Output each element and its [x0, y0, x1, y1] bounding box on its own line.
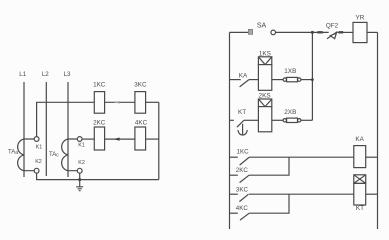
wire from K2 of TAc to bottom rail	[79, 173, 81, 180]
junction ground node	[78, 178, 81, 181]
relay coil KA	[354, 136, 366, 168]
svg-text:a: a	[15, 150, 18, 156]
wire right vertical bus	[377, 32, 379, 229]
svg-text:3KC: 3KC	[236, 187, 249, 194]
svg-text:K1: K1	[78, 143, 85, 149]
wire 3KC row from bus	[230, 193, 238, 195]
wire 2KC row riser up to 1KC row	[249, 157, 289, 175]
node L1	[19, 71, 26, 78]
svg-text:SA: SA	[257, 22, 267, 29]
wire riser from QF2 junction down to XB rows	[311, 32, 313, 120]
current transformer TAc	[49, 139, 77, 171]
arrow dash after QF2	[339, 31, 344, 33]
contact 4KC	[236, 205, 249, 220]
svg-text:1KC: 1KC	[237, 149, 250, 156]
svg-text:1XB: 1XB	[284, 68, 296, 75]
wire KT coil to right bus	[366, 193, 378, 195]
wire QF2 to YR	[337, 31, 353, 33]
wire 1KS to 1XB	[272, 79, 283, 81]
svg-text:4KC: 4KC	[135, 120, 148, 127]
svg-text:2KS: 2KS	[259, 93, 271, 100]
junction node at riser	[311, 31, 314, 34]
wire L2 phase line	[45, 82, 47, 176]
wire KT row from bus	[230, 119, 234, 121]
svg-text:KT: KT	[356, 205, 364, 212]
svg-text:L2: L2	[42, 71, 49, 78]
faint arrow on wire	[114, 101, 120, 104]
wire KA coil to right bus	[366, 156, 378, 158]
svg-text:KT: KT	[238, 109, 246, 116]
wire KA contact to 1KS	[249, 79, 259, 81]
node L2	[42, 71, 49, 78]
contact 1KC	[237, 149, 250, 166]
relay coil 2KC	[93, 120, 106, 150]
wire KA row from bus	[230, 79, 241, 81]
svg-text:QF2: QF2	[326, 22, 339, 29]
wire 2KS to 2XB	[272, 119, 283, 121]
wire L3 phase line	[67, 82, 69, 177]
time relay coil KT	[354, 175, 366, 212]
wire left control bus	[229, 32, 231, 229]
switch SA	[248, 22, 275, 34]
wire from K1 of TAc right to 2KC	[82, 138, 94, 140]
svg-text:L3: L3	[64, 71, 71, 78]
svg-text:3KC: 3KC	[134, 81, 147, 88]
wire KT contact to 2KS	[244, 119, 259, 121]
terminal K2 of TAa	[34, 159, 42, 173]
svg-text:TA: TA	[8, 149, 15, 155]
wire YR to right vertical	[367, 31, 378, 33]
arrow on wire	[113, 138, 119, 141]
wire right vertical of CT secondary loop	[158, 102, 160, 179]
current transformer TAa	[8, 139, 34, 171]
relay coil 3KC	[134, 81, 147, 113]
svg-text:1KS: 1KS	[259, 51, 271, 58]
wire SA to QF2 junction	[276, 31, 329, 33]
contact 3KC	[236, 187, 249, 202]
svg-text:2KC: 2KC	[93, 120, 106, 127]
terminal K1 of TAa	[34, 137, 42, 151]
terminal K1 of TAc	[77, 137, 85, 149]
wire 1KC row from bus	[230, 156, 238, 158]
wire 2KC to 4KC with arrow	[105, 138, 135, 140]
svg-text:K2: K2	[78, 160, 85, 166]
wire 4KC row riser up to 3KC row	[249, 194, 289, 213]
svg-text:2KC: 2KC	[236, 167, 249, 174]
wire 2XB to riser bottom	[301, 119, 313, 121]
wire top row to SA	[230, 31, 249, 33]
signal relay 1KS	[258, 51, 271, 91]
terminal K2 of TAc	[77, 160, 85, 173]
junction node	[311, 78, 314, 81]
wire 1KC row to KA coil	[249, 156, 354, 158]
svg-text:4KC: 4KC	[236, 205, 249, 212]
time-delay contact KT	[237, 109, 247, 135]
ground	[76, 180, 83, 191]
svg-text:2XB: 2XB	[284, 109, 296, 116]
relay coil 4KC	[135, 120, 148, 150]
wire 4KC row from bus	[230, 212, 238, 214]
svg-text:K2: K2	[35, 159, 42, 165]
svg-text:KA: KA	[239, 72, 248, 79]
jumper link 1XB	[283, 68, 301, 82]
svg-text:KA: KA	[355, 136, 364, 143]
relay coil 1KC	[93, 81, 106, 113]
breaker auxiliary contact QF2	[326, 22, 339, 39]
wire 3KC row to KT coil	[249, 193, 355, 195]
wire 2KC row from bus	[230, 174, 238, 176]
contact 2KC	[236, 167, 249, 183]
contact KA	[239, 72, 249, 87]
trip coil YR	[353, 14, 367, 42]
svg-text:K1: K1	[36, 144, 43, 150]
node L3	[64, 71, 71, 78]
svg-text:TA: TA	[49, 152, 56, 158]
svg-text:L1: L1	[19, 71, 26, 78]
wire 4KC to right vertical	[146, 138, 159, 140]
arrow dash before QF2	[317, 31, 322, 33]
wire bottom rail from K2 of TAa	[37, 173, 159, 180]
svg-text:1KC: 1KC	[93, 81, 106, 88]
wire from K1 of TAa up and right to 1KC	[37, 102, 95, 136]
wire L1 phase line	[23, 82, 25, 177]
wire 1XB to riser	[301, 79, 313, 81]
svg-text:YR: YR	[355, 14, 364, 21]
jumper link 2XB	[283, 109, 301, 122]
wire 1KC to 3KC	[105, 101, 135, 103]
signal relay 2KS	[258, 93, 271, 132]
wire 3KC to right vertical	[146, 101, 159, 103]
